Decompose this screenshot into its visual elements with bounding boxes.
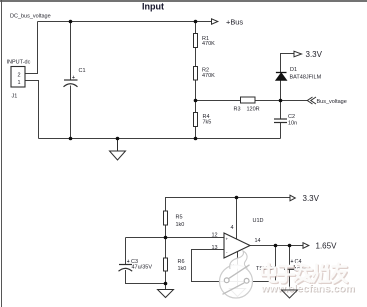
- svg-text:4: 4: [231, 225, 234, 231]
- junction feedback tap on output: [274, 244, 278, 248]
- svg-text:+: +: [291, 259, 294, 265]
- junction C1 bottom on ground net: [69, 137, 73, 141]
- wire R1-R2: [195, 48, 197, 67]
- junction pin4 tap on 3.3V rail: [235, 196, 239, 200]
- wire J1 pin1 to bottom bus: [25, 81, 39, 139]
- junction R4 bottom on ground net: [194, 137, 198, 141]
- capacitor C1: [64, 80, 78, 87]
- wire R1 top: [195, 22, 197, 34]
- svg-text:12: 12: [212, 233, 218, 239]
- svg-text:+: +: [127, 259, 130, 265]
- wire C4 top: [289, 246, 291, 267]
- power arrow 1.65V: [303, 243, 309, 249]
- svg-text:470K: 470K: [202, 41, 215, 47]
- junction D1/C2/Bus_voltage node: [279, 99, 283, 103]
- svg-text:1k0: 1k0: [178, 266, 187, 272]
- ground (R6): [158, 290, 174, 298]
- svg-text:7k5: 7k5: [203, 120, 212, 126]
- svg-text:INPUT-dc: INPUT-dc: [7, 60, 31, 66]
- wire pin12 net: [126, 237, 225, 239]
- svg-text:1: 1: [18, 80, 21, 86]
- resistor R6: [164, 258, 168, 271]
- wire C3 top: [125, 238, 127, 265]
- wire R5 bottom: [165, 225, 167, 238]
- svg-text:R5: R5: [176, 215, 183, 221]
- off-page connector Bus_voltage: [307, 97, 316, 104]
- svg-text:1k0: 1k0: [176, 222, 185, 228]
- wire C4 to ground: [289, 269, 291, 290]
- svg-text:+: +: [226, 237, 229, 242]
- resistor R1: [194, 34, 198, 48]
- svg-text:C2: C2: [288, 114, 295, 120]
- sheet border top: [0, 0, 367, 2]
- wire C1 bottom: [70, 86, 72, 139]
- op-amp U1D: [224, 233, 250, 258]
- junction R5/R6/C3 node at pin 12: [164, 236, 168, 240]
- wire top bus: [38, 21, 212, 23]
- capacitor C4: [284, 266, 295, 269]
- svg-text:+: +: [72, 75, 75, 81]
- svg-text:Input: Input: [142, 2, 164, 12]
- wire output: [250, 245, 303, 247]
- resistor R2: [194, 67, 198, 81]
- wire R2 to node: [195, 80, 197, 101]
- ground (input section): [110, 139, 126, 161]
- wire node to R4: [195, 101, 197, 114]
- wire R6 top: [165, 238, 167, 259]
- wire C1 top: [70, 22, 72, 81]
- power arrow +Bus: [212, 19, 218, 24]
- svg-text:3.3V: 3.3V: [303, 194, 320, 203]
- wire ground stem R6: [165, 284, 167, 290]
- watermark chinese characters: [262, 264, 348, 284]
- connector J1: [11, 67, 25, 88]
- diode D1: [276, 73, 287, 81]
- svg-text:2: 2: [18, 73, 21, 79]
- wire R4 bottom: [195, 127, 197, 139]
- watermark logo circle: [220, 251, 253, 298]
- wire C3 bottom: [126, 270, 166, 284]
- svg-text:1.65V: 1.65V: [316, 242, 338, 251]
- wire bottom bus: [39, 138, 281, 140]
- wire D1 anode: [280, 81, 282, 101]
- wire node B to C2: [280, 101, 282, 120]
- svg-text:U1D: U1D: [253, 218, 264, 224]
- capacitor C2: [274, 119, 287, 123]
- wire 3.3V rail: [166, 198, 291, 212]
- junction ground tap: [116, 137, 120, 141]
- wire R6 bottom: [165, 271, 167, 284]
- svg-text:Bus_voltage: Bus_voltage: [317, 99, 347, 105]
- junction C1 top on DC_bus net: [69, 20, 73, 24]
- svg-text:3.3V: 3.3V: [306, 50, 323, 59]
- svg-text:D1: D1: [290, 67, 297, 73]
- svg-text:14: 14: [255, 238, 261, 244]
- resistor R4: [194, 113, 198, 127]
- svg-text:120R: 120R: [247, 107, 260, 113]
- junction C4 tap on output: [288, 244, 292, 248]
- svg-text:13: 13: [212, 245, 218, 251]
- junction R6/C3 ground node: [164, 282, 168, 286]
- svg-text:47u/35V: 47u/35V: [132, 265, 153, 271]
- svg-text:R3: R3: [234, 107, 241, 113]
- sheet border left: [1, 0, 3, 307]
- svg-text:10n: 10n: [288, 121, 297, 127]
- wire R3 to node B: [255, 100, 308, 102]
- wire feedback loop: [192, 246, 276, 282]
- resistor R5: [164, 211, 168, 225]
- capacitor C3: [119, 265, 133, 272]
- ground (C4): [282, 290, 298, 298]
- svg-text:C1: C1: [79, 68, 86, 74]
- power arrow 3.3V top: [294, 51, 302, 57]
- wire pin11: [237, 252, 239, 289]
- wire pin4: [236, 198, 238, 240]
- junction R1 top on DC_bus net: [194, 20, 198, 24]
- svg-text:R6: R6: [178, 259, 185, 265]
- svg-text:www.elecfans.com: www.elecfans.com: [260, 283, 355, 295]
- ground (op-amp pin 11): [230, 289, 246, 297]
- wire D1 cathode to 3.3V: [281, 54, 295, 73]
- svg-text:J1: J1: [12, 94, 18, 100]
- resistor R3: [241, 97, 256, 103]
- power arrow 3.3V lower: [290, 195, 295, 201]
- svg-text:+Bus: +Bus: [226, 18, 243, 27]
- svg-text:470K: 470K: [202, 73, 215, 79]
- wire C2 to bottom bus: [280, 123, 282, 139]
- wire J1 pin2 to top bus: [25, 22, 38, 74]
- svg-text:DC_bus_voltage: DC_bus_voltage: [10, 14, 51, 20]
- wire node to R3: [196, 100, 241, 102]
- junction R2/R3/R4 node: [194, 99, 198, 103]
- svg-text:BAT48JFILM: BAT48JFILM: [290, 75, 322, 81]
